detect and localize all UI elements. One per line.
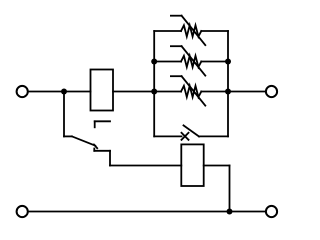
node: right bus / bottom branch bbox=[225, 89, 231, 95]
switch contact S2 with x mark (between buses) bbox=[154, 125, 228, 139]
node: junction on upper input wire bbox=[61, 89, 67, 95]
node: junction on bottom rail bbox=[227, 209, 233, 215]
wire: left bus of varistor bank bbox=[153, 31, 155, 136]
node: right bus / middle branch bbox=[225, 59, 231, 65]
varistor RV3 (bottom branch) bbox=[154, 76, 228, 105]
terminal (lower right) bbox=[266, 206, 277, 217]
node: left bus / bottom branch bbox=[151, 89, 157, 95]
actuator link mark (corner symbol below coil K1) bbox=[95, 121, 110, 127]
wire: switch S1 to coil K2 bbox=[110, 165, 181, 167]
coil K1 (rectangle component, top) bbox=[91, 70, 114, 111]
wire: coil K1 to varistor bank bbox=[113, 91, 154, 93]
coil K2 (rectangle component, bottom) bbox=[181, 144, 203, 186]
terminal (upper right) bbox=[266, 86, 277, 97]
varistor RV2 (middle branch) bbox=[154, 46, 228, 75]
terminal (lower left) bbox=[17, 206, 28, 217]
wire: right bus to upper-right terminal bbox=[228, 91, 265, 93]
switch S1 (blade with arrow barb) bbox=[64, 136, 110, 165]
node: left bus / middle branch bbox=[151, 59, 157, 65]
wire: upper-left terminal to coil K1 bbox=[28, 91, 90, 93]
wire: right bus of varistor bank bbox=[227, 31, 229, 136]
wire: junction down to switch S1 bbox=[63, 92, 65, 137]
wire: coil K2 to bottom rail bbox=[204, 166, 230, 212]
terminal (upper left) bbox=[17, 86, 28, 97]
wire: bottom rail bbox=[28, 211, 265, 213]
varistor RV1 (top branch) bbox=[154, 16, 228, 45]
